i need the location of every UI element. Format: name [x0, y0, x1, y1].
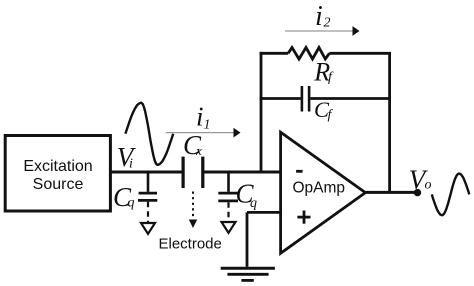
wire (op-amp output to Vo node)	[365, 191, 417, 194]
node Vo (output dot)	[414, 189, 421, 196]
electrode arrow (dotted)	[189, 192, 197, 229]
Cf value label	[314, 97, 334, 123]
svg-text:q: q	[250, 196, 257, 211]
svg-text:i: i	[315, 1, 323, 32]
Rf value label	[313, 57, 334, 86]
capacitor Cq (left)	[138, 172, 157, 200]
Cq (left) value label	[113, 182, 135, 212]
svg-text:i: i	[196, 102, 204, 132]
input sine symbol	[125, 103, 173, 165]
svg-text:Source: Source	[33, 176, 84, 193]
ground (below right Cq, dashed)	[222, 202, 236, 233]
wire (feedback left branch up from minus node)	[260, 52, 263, 172]
current arrow i1	[166, 102, 241, 138]
svg-text:x: x	[195, 143, 202, 158]
svg-text:Electrode: Electrode	[159, 236, 222, 253]
svg-text:Excitation: Excitation	[23, 158, 92, 175]
svg-text:q: q	[128, 196, 135, 211]
op-amp U1	[281, 132, 366, 253]
svg-text:i: i	[129, 157, 133, 172]
Cq (right) value label	[236, 178, 258, 211]
wire (Vi node: box output to Cx left plate)	[110, 171, 183, 174]
wire (Cx right plate to op-amp minus input)	[203, 171, 281, 174]
svg-text:o: o	[425, 178, 432, 193]
ground (below left Cq, dashed)	[141, 202, 155, 234]
capacitor Cx (series plates)	[183, 157, 203, 188]
wire (plus input to ground)	[247, 212, 281, 266]
output sine symbol	[432, 174, 470, 216]
svg-text:2: 2	[324, 16, 331, 31]
node Vi label	[117, 142, 137, 172]
capacitor Cf (middle feedback rail)	[260, 86, 391, 112]
svg-text:1: 1	[204, 118, 211, 133]
Vo label	[409, 164, 432, 194]
svg-text:OpAmp: OpAmp	[293, 180, 346, 197]
wire (feedback right branch down to output)	[388, 53, 391, 192]
current arrow i2	[285, 1, 360, 36]
Cx value label	[183, 130, 202, 160]
excitation source box	[5, 136, 110, 212]
ground (main, below plus input)	[221, 268, 275, 280]
capacitor Cq (right)	[218, 172, 238, 201]
resistor Rf (top feedback rail with zigzag)	[260, 48, 391, 60]
